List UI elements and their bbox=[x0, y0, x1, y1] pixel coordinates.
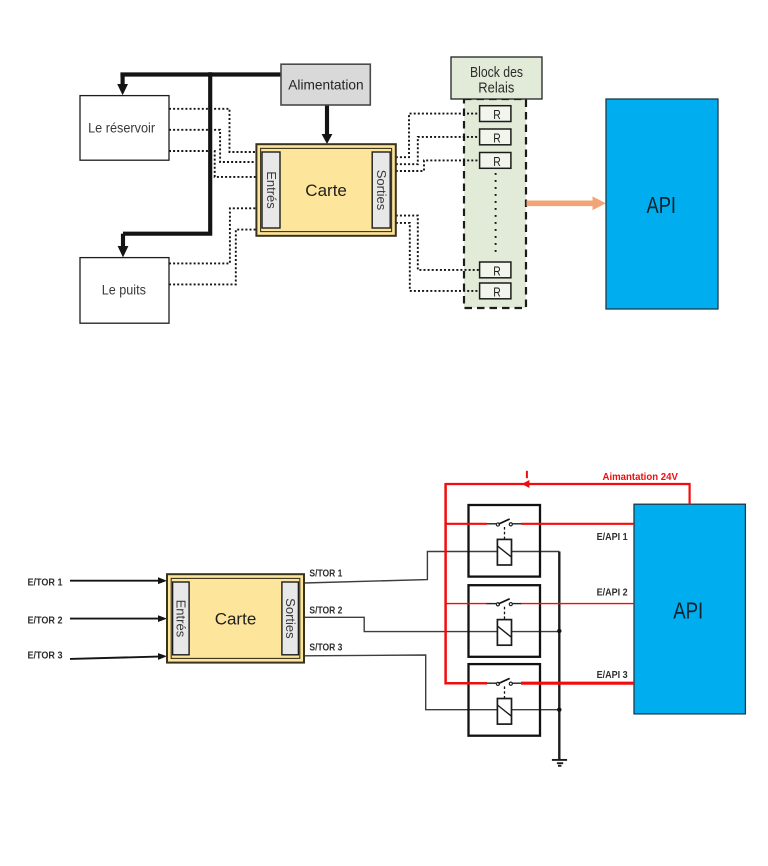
svg-text:R: R bbox=[493, 284, 501, 299]
svg-text:Le réservoir: Le réservoir bbox=[88, 120, 155, 136]
svg-text:Aimantation 24V: Aimantation 24V bbox=[603, 472, 679, 483]
svg-text:Sorties: Sorties bbox=[283, 598, 298, 639]
svg-text:Carte: Carte bbox=[305, 181, 347, 200]
svg-text:R: R bbox=[493, 130, 501, 145]
svg-text:Relais: Relais bbox=[478, 80, 514, 97]
svg-text:R: R bbox=[493, 263, 501, 278]
svg-text:S/TOR 2: S/TOR 2 bbox=[309, 606, 342, 617]
svg-text:E/TOR 1: E/TOR 1 bbox=[28, 577, 63, 588]
svg-text:Alimentation: Alimentation bbox=[288, 77, 363, 93]
svg-text:Entrés: Entrés bbox=[174, 600, 189, 638]
svg-text:E/API 2: E/API 2 bbox=[597, 588, 628, 599]
svg-text:API: API bbox=[673, 597, 703, 623]
svg-text:S/TOR 1: S/TOR 1 bbox=[309, 568, 342, 579]
svg-text:E/API 3: E/API 3 bbox=[597, 670, 628, 681]
svg-text:Le puits: Le puits bbox=[102, 282, 146, 298]
svg-text:R: R bbox=[493, 154, 501, 169]
svg-text:API: API bbox=[647, 192, 677, 218]
svg-text:Carte: Carte bbox=[215, 609, 257, 628]
svg-text:E/TOR 3: E/TOR 3 bbox=[28, 650, 63, 661]
svg-text:Entrés: Entrés bbox=[264, 171, 279, 209]
svg-text:E/API 1: E/API 1 bbox=[597, 532, 628, 543]
svg-text:R: R bbox=[493, 107, 501, 122]
svg-text:Sorties: Sorties bbox=[374, 170, 389, 211]
svg-text:E/TOR 2: E/TOR 2 bbox=[28, 615, 63, 626]
svg-text:S/TOR 3: S/TOR 3 bbox=[309, 643, 342, 654]
svg-text:Block des: Block des bbox=[470, 64, 523, 81]
